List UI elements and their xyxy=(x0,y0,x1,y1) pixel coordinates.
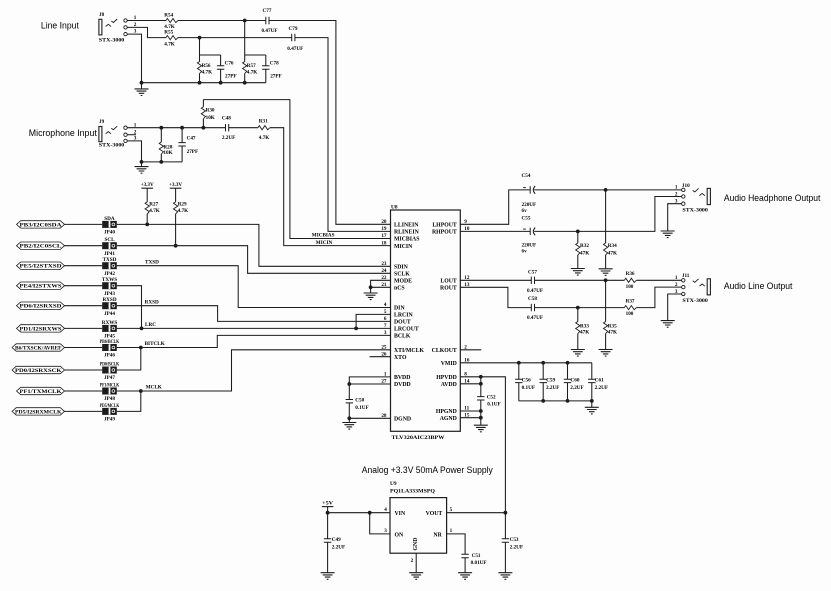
port flag PE4/I2STXWS xyxy=(17,282,65,290)
resistor R33 47K xyxy=(576,322,590,336)
svg-text:PD0/I2SRXSCK: PD0/I2SRXSCK xyxy=(15,369,62,374)
svg-text:RXSD: RXSD xyxy=(102,297,116,303)
ground (R34) xyxy=(599,269,613,276)
svg-text:0.47UF: 0.47UF xyxy=(527,288,543,294)
junction R57/C78 branch on left-input line xyxy=(243,19,247,23)
analog supply vertical xyxy=(480,377,482,397)
svg-text:R31: R31 xyxy=(259,118,268,124)
svg-text:PF1/TXMCLK: PF1/TXMCLK xyxy=(20,390,62,395)
junction C47 on mic line xyxy=(180,126,184,130)
svg-text:C50: C50 xyxy=(355,398,364,404)
svg-text:MODE: MODE xyxy=(394,279,412,285)
jumper JP48 xyxy=(100,382,120,402)
svg-text:R55: R55 xyxy=(164,30,173,36)
port flag B6/TXSCK/AVREF xyxy=(12,344,65,352)
wire U8 ROUT pin 13 to C58 xyxy=(460,287,531,307)
svg-text:SDA: SDA xyxy=(104,216,115,222)
svg-text:MCLK: MCLK xyxy=(146,385,162,391)
svg-text:17: 17 xyxy=(381,233,387,239)
wire J9 pin1 signal line xyxy=(127,127,225,129)
svg-text:JP49: JP49 xyxy=(104,417,115,423)
capacitor C79 0.47UF xyxy=(287,26,303,52)
C60 top stub xyxy=(567,363,569,379)
C51 bottom stub xyxy=(464,558,466,573)
svg-text:VMID: VMID xyxy=(441,361,457,367)
jumper JP40 xyxy=(102,216,117,236)
capacitor C51 0.01UF xyxy=(461,553,486,566)
svg-text:PE5/I2STXSD: PE5/I2STXSD xyxy=(20,265,63,270)
jumper JP42 xyxy=(102,257,117,277)
audio jack J11 (STX-3000) xyxy=(675,273,710,304)
svg-text:PD1/I2SRXWS: PD1/I2SRXWS xyxy=(20,327,62,332)
svg-text:27PF: 27PF xyxy=(225,73,237,79)
svg-text:C79: C79 xyxy=(289,26,298,32)
junction R56 at ground bus xyxy=(198,81,202,85)
svg-text:JP40: JP40 xyxy=(104,230,115,236)
resistor R29 4.7K xyxy=(174,201,189,214)
jumper JP41 xyxy=(102,237,117,257)
ground (line input) xyxy=(135,89,149,96)
wire flag PB3 to JP40 xyxy=(65,223,103,225)
junction R56/C76 branch on right-input line xyxy=(198,36,202,40)
svg-text:DVDD: DVDD xyxy=(394,382,411,388)
capacitor C48 2.2UF xyxy=(222,116,235,141)
svg-text:B6/TXSCK/AVREF: B6/TXSCK/AVREF xyxy=(15,346,62,351)
capacitor C60 2.2UF xyxy=(564,378,584,392)
svg-text:DIN: DIN xyxy=(394,306,405,312)
svg-text:R56: R56 xyxy=(202,63,211,69)
svg-text:LHPOUT: LHPOUT xyxy=(432,223,457,229)
resistor R30 10K xyxy=(201,107,215,121)
svg-text:6v: 6v xyxy=(522,208,528,214)
svg-text:27PF: 27PF xyxy=(270,73,282,79)
svg-text:0.1UF: 0.1UF xyxy=(522,385,535,391)
+5V stub xyxy=(327,507,329,513)
svg-text:RXWS: RXWS xyxy=(102,320,118,326)
ground (U9 GND) xyxy=(409,573,423,580)
svg-text:C58: C58 xyxy=(528,296,537,302)
svg-text:ROUT: ROUT xyxy=(440,286,457,292)
svg-text:R57: R57 xyxy=(247,63,256,69)
ground (mic input) xyxy=(135,167,149,174)
R35 stubs xyxy=(605,280,607,349)
ground stub below J9 xyxy=(141,162,143,167)
power symbol +5V xyxy=(322,500,334,506)
svg-text:47K: 47K xyxy=(608,329,617,335)
HPGND pin 11 wire xyxy=(460,410,481,412)
R29 stubs xyxy=(175,188,177,246)
svg-text:2.2UF: 2.2UF xyxy=(222,135,235,141)
C78 stubs xyxy=(265,55,267,83)
svg-text:100: 100 xyxy=(626,311,634,317)
wire LRC branch to U8 LRCIN pin 5 xyxy=(356,314,390,328)
capacitor C54 220UF 6v (polarized) xyxy=(522,173,537,214)
svg-text:ON: ON xyxy=(395,532,405,538)
svg-text:20: 20 xyxy=(381,219,387,225)
wire flag PD5 to JP49 xyxy=(65,410,103,412)
svg-text:TXWS: TXWS xyxy=(102,277,117,283)
svg-text:+3.3V: +3.3V xyxy=(141,182,154,188)
svg-text:VIN: VIN xyxy=(395,511,406,517)
wire SDA to U8 SDIN pin 23 xyxy=(117,224,391,266)
svg-text:PE4/I2STXWS: PE4/I2STXWS xyxy=(20,285,62,290)
svg-text:0.1UF: 0.1UF xyxy=(487,402,500,408)
junction DVDD on BVDD rail xyxy=(347,382,351,386)
svg-text:BCLK: BCLK xyxy=(394,334,411,340)
VMID cap bank bottom bus xyxy=(519,401,592,407)
svg-text:C54: C54 xyxy=(522,173,531,179)
svg-text:PD5/MCLK: PD5/MCLK xyxy=(100,403,120,409)
resistor R57 4.7K xyxy=(243,62,258,76)
svg-text:R34: R34 xyxy=(608,243,617,249)
jumper JP46 xyxy=(100,339,120,359)
wire U9 NR pin 1 to C51 xyxy=(447,534,466,554)
wire BITCLK to U8 BCLK pin 3 xyxy=(117,335,391,347)
C56 top stub xyxy=(518,363,520,379)
svg-text:BVDD: BVDD xyxy=(394,375,410,381)
resistor R31 4.7K xyxy=(258,118,270,141)
junction PD0/BCLK joins BITCLK xyxy=(139,346,143,350)
wire R55 to C79 xyxy=(178,37,292,39)
junction C76 at ground bus xyxy=(219,81,223,85)
svg-text:1: 1 xyxy=(675,185,678,191)
wire R37 to J11 pin 2 xyxy=(636,287,681,308)
svg-text:LRCOUT: LRCOUT xyxy=(394,327,419,333)
R33 stubs xyxy=(577,308,579,350)
svg-text:4.7K: 4.7K xyxy=(259,135,270,141)
svg-text:PF1/MCLK: PF1/MCLK xyxy=(100,382,120,388)
port flag PD6/I2SRXSD xyxy=(17,302,65,310)
svg-text:2: 2 xyxy=(675,282,678,288)
svg-text:100: 100 xyxy=(626,284,634,290)
port flag PD5/I2SRXMCLK xyxy=(12,408,65,416)
svg-text:AVDD: AVDD xyxy=(441,382,457,388)
svg-text:C47: C47 xyxy=(187,135,196,141)
port flag PD1/I2SRXWS xyxy=(17,325,65,333)
svg-text:PB6/BCLK: PB6/BCLK xyxy=(100,339,120,345)
svg-text:2.2UF: 2.2UF xyxy=(510,545,523,551)
svg-text:4: 4 xyxy=(384,507,387,513)
svg-text:3: 3 xyxy=(384,330,387,336)
wire flag PD0 to JP47 xyxy=(65,369,103,371)
ground (HPGND/AGND) xyxy=(474,425,488,432)
svg-text:C49: C49 xyxy=(332,537,341,543)
svg-text:C57: C57 xyxy=(528,269,537,275)
wire J10 pin 3 to ground xyxy=(668,204,682,231)
svg-text:R54: R54 xyxy=(164,12,173,18)
jumper JP43 xyxy=(102,277,117,297)
wire flag PD1 to JP45 xyxy=(65,327,103,329)
junction C59 on VMID bus xyxy=(541,361,545,365)
svg-text:JP43: JP43 xyxy=(104,291,115,297)
op IC U8 TLV320AIC23BPW body xyxy=(391,210,461,431)
svg-text:STX-3000: STX-3000 xyxy=(99,38,125,44)
wire J11 pin 3 to ground xyxy=(668,294,682,321)
svg-text:J9: J9 xyxy=(99,119,105,125)
svg-text:Microphone Input: Microphone Input xyxy=(29,128,98,138)
svg-text:RHPOUT: RHPOUT xyxy=(432,230,457,236)
ground (J10) xyxy=(661,231,675,238)
svg-text:0.01UF: 0.01UF xyxy=(471,560,487,566)
svg-text:RLINEIN: RLINEIN xyxy=(394,230,420,236)
power symbol +3.3V (R27) xyxy=(141,182,154,188)
ground (MODE/nCS) xyxy=(364,293,378,300)
svg-text:4.7K: 4.7K xyxy=(164,41,175,47)
wire ON pin 3 tie to VIN xyxy=(370,513,390,534)
DVDD pin 27 wire xyxy=(349,383,390,385)
BVDD pin 1 wire xyxy=(349,377,390,400)
svg-text:PB2/I2C0SCL: PB2/I2C0SCL xyxy=(20,245,63,250)
svg-text:CLKOUT: CLKOUT xyxy=(432,348,457,354)
VMID pin 16 bus xyxy=(460,362,592,364)
port flag PB2/I2C0SCL xyxy=(17,242,65,250)
junction AGND xyxy=(479,416,483,420)
R27 stubs xyxy=(146,188,148,224)
resistor R54 4.7K xyxy=(164,12,178,30)
svg-text:PD6/I2SRXSD: PD6/I2SRXSD xyxy=(20,305,63,310)
svg-text:1: 1 xyxy=(450,528,453,534)
junction R57 at ground bus xyxy=(243,81,247,85)
svg-text:PQ1LA333MSPQ: PQ1LA333MSPQ xyxy=(390,489,435,495)
svg-text:0.47UF: 0.47UF xyxy=(262,28,278,34)
C47 stubs xyxy=(181,128,183,162)
wire JP49 up to MCLK line xyxy=(117,391,141,411)
svg-text:0.47UF: 0.47UF xyxy=(287,46,303,52)
junction C60 bottom xyxy=(566,399,570,403)
U9 pin numbers xyxy=(384,507,452,564)
port flag PB3/I2C0SDA xyxy=(17,221,65,229)
svg-text:C53: C53 xyxy=(510,537,519,543)
U8 left pin numbers xyxy=(381,219,387,419)
svg-text:+5V: +5V xyxy=(322,500,333,506)
svg-text:DGND: DGND xyxy=(394,417,411,423)
junction C56 on VMID bus xyxy=(517,361,521,365)
mic ground bus xyxy=(142,161,183,163)
wire flag PB2 to JP41 xyxy=(65,245,103,247)
svg-text:2.2UF: 2.2UF xyxy=(570,385,583,391)
U8 left pin names xyxy=(394,223,424,423)
svg-text:C77: C77 xyxy=(263,8,272,14)
svg-text:STX-3000: STX-3000 xyxy=(682,208,708,214)
svg-text:JP44: JP44 xyxy=(104,311,115,317)
wire U8 LHPOUT pin 9 to C54 xyxy=(460,190,530,224)
junction R33 on line-out right xyxy=(576,306,580,310)
wire U9 VOUT pin 5 to rail xyxy=(447,512,506,514)
svg-text:Audio Line Output: Audio Line Output xyxy=(724,281,793,291)
ground (R32) xyxy=(571,269,585,276)
svg-text:VOUT: VOUT xyxy=(426,511,443,517)
wire J8 pin2 jog down to R55 xyxy=(127,27,166,37)
svg-text:7: 7 xyxy=(384,323,387,329)
svg-text:C60: C60 xyxy=(571,378,580,384)
junction +5V / C49 xyxy=(326,511,330,515)
junction MODE/nCS tie xyxy=(369,285,373,289)
junction HPGND xyxy=(479,409,483,413)
svg-text:NR: NR xyxy=(433,532,442,538)
wire J8 pin3 to ground bus xyxy=(127,34,141,83)
svg-text:24: 24 xyxy=(381,268,387,274)
R34 stubs xyxy=(605,190,607,269)
wire U8 LOUT pin 12 to C57 xyxy=(460,279,531,281)
svg-text:2.2UF: 2.2UF xyxy=(332,545,345,551)
C61 top stub xyxy=(591,363,593,379)
capacitor C49 2.2UF xyxy=(324,537,345,550)
svg-text:MICBIAS: MICBIAS xyxy=(312,233,335,239)
wire C58 to R37 xyxy=(535,307,625,309)
capacitor C58 0.47UF xyxy=(527,296,543,321)
svg-text:1: 1 xyxy=(675,275,678,281)
audio jack J8 (STX-3000) xyxy=(99,12,137,44)
junction R30 on mic line xyxy=(202,126,206,130)
svg-text:C51: C51 xyxy=(472,553,481,559)
capacitor C57 0.47UF xyxy=(527,269,543,293)
svg-text:SCL: SCL xyxy=(104,237,115,243)
wire R54 to C77 xyxy=(178,20,266,22)
svg-text:GND: GND xyxy=(413,538,419,551)
wire RXSD to U8 DOUT pin 6 xyxy=(117,306,391,322)
wire branch to R56/C76 top bus xyxy=(200,38,221,55)
svg-text:+3.3V: +3.3V xyxy=(169,182,182,188)
svg-text:6: 6 xyxy=(384,316,387,322)
junction C60 on VMID bus xyxy=(566,361,570,365)
svg-text:BITCLK: BITCLK xyxy=(145,341,165,347)
C59 bottom stub xyxy=(542,383,544,401)
R56 stubs xyxy=(199,55,201,83)
svg-text:Analog +3.3V 50mA Power Supply: Analog +3.3V 50mA Power Supply xyxy=(362,465,494,475)
svg-text:JP41: JP41 xyxy=(104,251,115,257)
port flag PE5/I2STXSD xyxy=(17,262,65,270)
wire LRC to U8 LRCOUT pin 7 xyxy=(117,327,391,329)
ground (J11) xyxy=(661,321,675,328)
port flag PD0/I2SRXSCK xyxy=(12,366,65,374)
wire C79 to U8 RLINEIN pin 19 xyxy=(295,38,391,232)
C53 stubs xyxy=(504,513,506,573)
junction PD5/MCLK joins MCLK xyxy=(139,389,143,393)
capacitor C55 220UF 6v (polarized) xyxy=(522,216,537,255)
wire C55 to J10 pin 2 xyxy=(534,197,681,232)
port flag PF1/TXMCLK xyxy=(17,387,65,395)
svg-text:R30: R30 xyxy=(206,108,215,114)
C60 bottom stub xyxy=(567,383,569,401)
svg-text:J8: J8 xyxy=(99,12,105,18)
svg-text:XTO: XTO xyxy=(394,355,407,361)
svg-text:DOUT: DOUT xyxy=(394,320,411,326)
junction R29 on SCL line xyxy=(174,244,178,248)
resistor R28 10K xyxy=(159,142,173,156)
AGND pin 15 wire xyxy=(460,417,481,419)
wire TXWS down to LRC line xyxy=(117,286,142,329)
junction AVDD xyxy=(479,382,483,386)
C59 top stub xyxy=(542,363,544,379)
ground (R33) xyxy=(571,350,585,357)
svg-text:JP42: JP42 xyxy=(104,271,115,277)
svg-text:25: 25 xyxy=(381,345,387,351)
svg-text:HPVDD: HPVDD xyxy=(436,375,457,381)
resistor R37 100 xyxy=(624,299,636,318)
resistor R35 47K xyxy=(604,322,618,336)
svg-text:MICBIAS: MICBIAS xyxy=(394,237,419,243)
svg-text:HPGND: HPGND xyxy=(436,409,457,415)
svg-text:6v: 6v xyxy=(522,249,528,255)
junction C59 bottom xyxy=(541,399,545,403)
wire C48 to R31 xyxy=(229,127,258,129)
svg-text:4.7K: 4.7K xyxy=(202,69,213,75)
resistor R34 47K xyxy=(604,243,618,257)
svg-text:5: 5 xyxy=(384,309,387,315)
svg-text:SCLK: SCLK xyxy=(394,272,410,278)
R57 stubs xyxy=(244,55,246,83)
svg-text:LRC: LRC xyxy=(145,322,156,328)
junction DGND at C50 xyxy=(347,416,351,420)
svg-text:PB3/I2C0SDA: PB3/I2C0SDA xyxy=(20,223,63,228)
svg-text:C52: C52 xyxy=(487,395,496,401)
audio jack J9 (STX-3000) xyxy=(99,119,137,148)
capacitor C50 0.1UF xyxy=(346,398,369,411)
ground stub below J8 sleeve xyxy=(141,83,143,89)
svg-text:5: 5 xyxy=(450,507,453,513)
capacitor C78 27PF xyxy=(262,60,282,79)
wire R31 to U8 MICIN pin 18 xyxy=(270,128,391,246)
junction R27 on SDA line xyxy=(145,223,149,227)
ground (C53) xyxy=(498,573,512,580)
capacitor C53 2.2UF xyxy=(502,537,523,550)
R28 stubs xyxy=(160,128,162,162)
AVDD pin 14 wire xyxy=(460,383,481,385)
wire R36 to J11 pin 1 xyxy=(636,279,681,281)
capacitor C47 27PF xyxy=(178,135,198,155)
resistor R55 4.7K xyxy=(164,30,178,48)
junction J9 sleeve at mic ground bus xyxy=(140,160,144,164)
U9 pin names xyxy=(395,511,443,550)
svg-text:4.7K: 4.7K xyxy=(247,69,258,75)
junction ground stub bottom bus xyxy=(590,399,594,403)
svg-text:STX-3000: STX-3000 xyxy=(99,142,125,148)
wire flag PE4 to JP43 xyxy=(65,285,103,287)
ground (R35) xyxy=(599,350,613,357)
svg-text:2.2UF: 2.2UF xyxy=(546,385,559,391)
svg-text:LLINEIN: LLINEIN xyxy=(394,223,419,229)
svg-text:RXSD: RXSD xyxy=(145,299,159,305)
wire J8 pin1 to R54 xyxy=(127,20,166,22)
U9 GND pin 2 stub xyxy=(415,553,417,573)
resistor R36 100 xyxy=(624,271,636,290)
svg-text:Audio Headphone Output: Audio Headphone Output xyxy=(724,193,821,203)
power symbol +3.3V (R29) xyxy=(169,182,182,188)
wire MCLK to U8 XTI/MCLK pin 25 xyxy=(117,350,391,391)
resistor R32 47K xyxy=(576,243,590,257)
junction AVDD branch on HPVDD wire xyxy=(479,375,483,379)
junction R34 on headphone left line xyxy=(604,188,608,192)
svg-text:U8: U8 xyxy=(391,204,398,210)
ground (VMID caps) xyxy=(585,407,599,414)
wire JP47 up to BITCLK line xyxy=(117,348,141,371)
svg-text:XTI/MCLK: XTI/MCLK xyxy=(394,348,424,354)
svg-text:10K: 10K xyxy=(206,115,215,121)
svg-text:2: 2 xyxy=(675,191,678,197)
resistor R56 4.7K xyxy=(197,62,212,76)
C61 bottom stub xyxy=(591,383,593,401)
capacitor C52 0.1UF xyxy=(477,395,501,408)
C52 bottom to HPGND/AGND xyxy=(480,400,482,425)
R32 stubs xyxy=(577,231,579,268)
svg-text:0.1UF: 0.1UF xyxy=(355,405,368,411)
C49 stubs xyxy=(327,513,329,573)
wire TXSD to U8 DIN pin 4 xyxy=(117,266,391,308)
svg-text:J10: J10 xyxy=(682,183,690,189)
capacitor C59 2.2UF xyxy=(540,378,560,392)
junction LRCIN branch on LRC xyxy=(354,327,358,331)
capacitor C56 0.1UF xyxy=(515,378,535,392)
